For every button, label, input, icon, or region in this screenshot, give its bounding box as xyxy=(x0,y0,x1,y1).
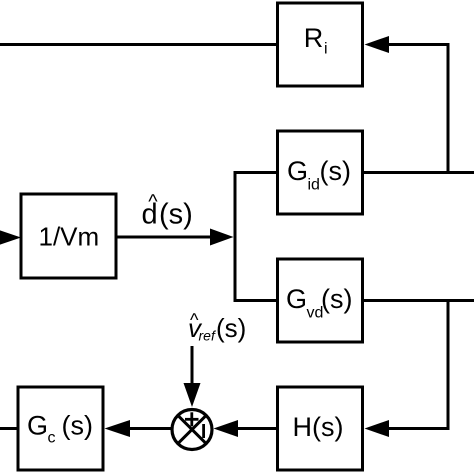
block H(s) xyxy=(278,387,363,470)
wire: input from left edge into 1/Vm xyxy=(0,229,21,246)
wire: H output to summing junction xyxy=(238,427,276,430)
svg-text:c: c xyxy=(48,430,56,447)
svg-text:(s): (s) xyxy=(159,198,193,230)
arrowhead into summing junction (right) xyxy=(214,420,239,437)
wire: v_ref arrow down into summing junction xyxy=(191,346,194,384)
svg-text:G: G xyxy=(286,284,307,314)
wire: G_id output to right edge (node A) xyxy=(363,171,474,174)
svg-text:^: ^ xyxy=(190,310,199,330)
arrowhead into R_i xyxy=(365,36,390,53)
svg-text:R: R xyxy=(304,23,324,53)
svg-text:^: ^ xyxy=(148,191,158,213)
block R_i xyxy=(278,3,363,86)
svg-text:H(s): H(s) xyxy=(293,412,344,442)
svg-text:ref: ref xyxy=(199,328,217,344)
wire: 1/Vm output to junction xyxy=(116,236,210,239)
wire: G_vd output to right edge (node B) xyxy=(363,299,474,302)
block G_id(s) xyxy=(278,131,363,214)
svg-text:(s): (s) xyxy=(320,156,351,186)
block G_c(s) xyxy=(18,387,103,470)
wire: G_c output to left edge xyxy=(0,427,17,430)
label d_hat(s) xyxy=(142,191,193,230)
wire: R_i output to left edge xyxy=(0,43,277,46)
svg-text:G: G xyxy=(27,410,48,440)
arrowhead into summing junction (top) xyxy=(184,383,201,407)
arrowhead into junction node xyxy=(210,229,234,246)
svg-text:(s): (s) xyxy=(62,410,93,440)
label v_hat_ref(s) xyxy=(188,310,246,344)
block G_vd(s) xyxy=(278,259,363,342)
arrowhead into G_c xyxy=(105,420,131,437)
block 1/Vm xyxy=(21,194,116,278)
svg-text:(s): (s) xyxy=(216,313,246,343)
svg-text:i: i xyxy=(324,40,328,57)
wire: junction branch to G_id and G_vd xyxy=(235,173,277,301)
wire: feedback from node A up to R_i input xyxy=(388,45,448,173)
arrowhead into H xyxy=(365,420,390,437)
wire: summing junction output to G_c xyxy=(130,427,171,430)
svg-text:1/Vm: 1/Vm xyxy=(39,221,100,251)
svg-text:G: G xyxy=(287,156,308,186)
svg-text:id: id xyxy=(308,177,320,194)
summing junction xyxy=(172,410,212,450)
svg-text:(s): (s) xyxy=(321,284,352,314)
wire: feedback from node B down into H xyxy=(388,301,448,429)
